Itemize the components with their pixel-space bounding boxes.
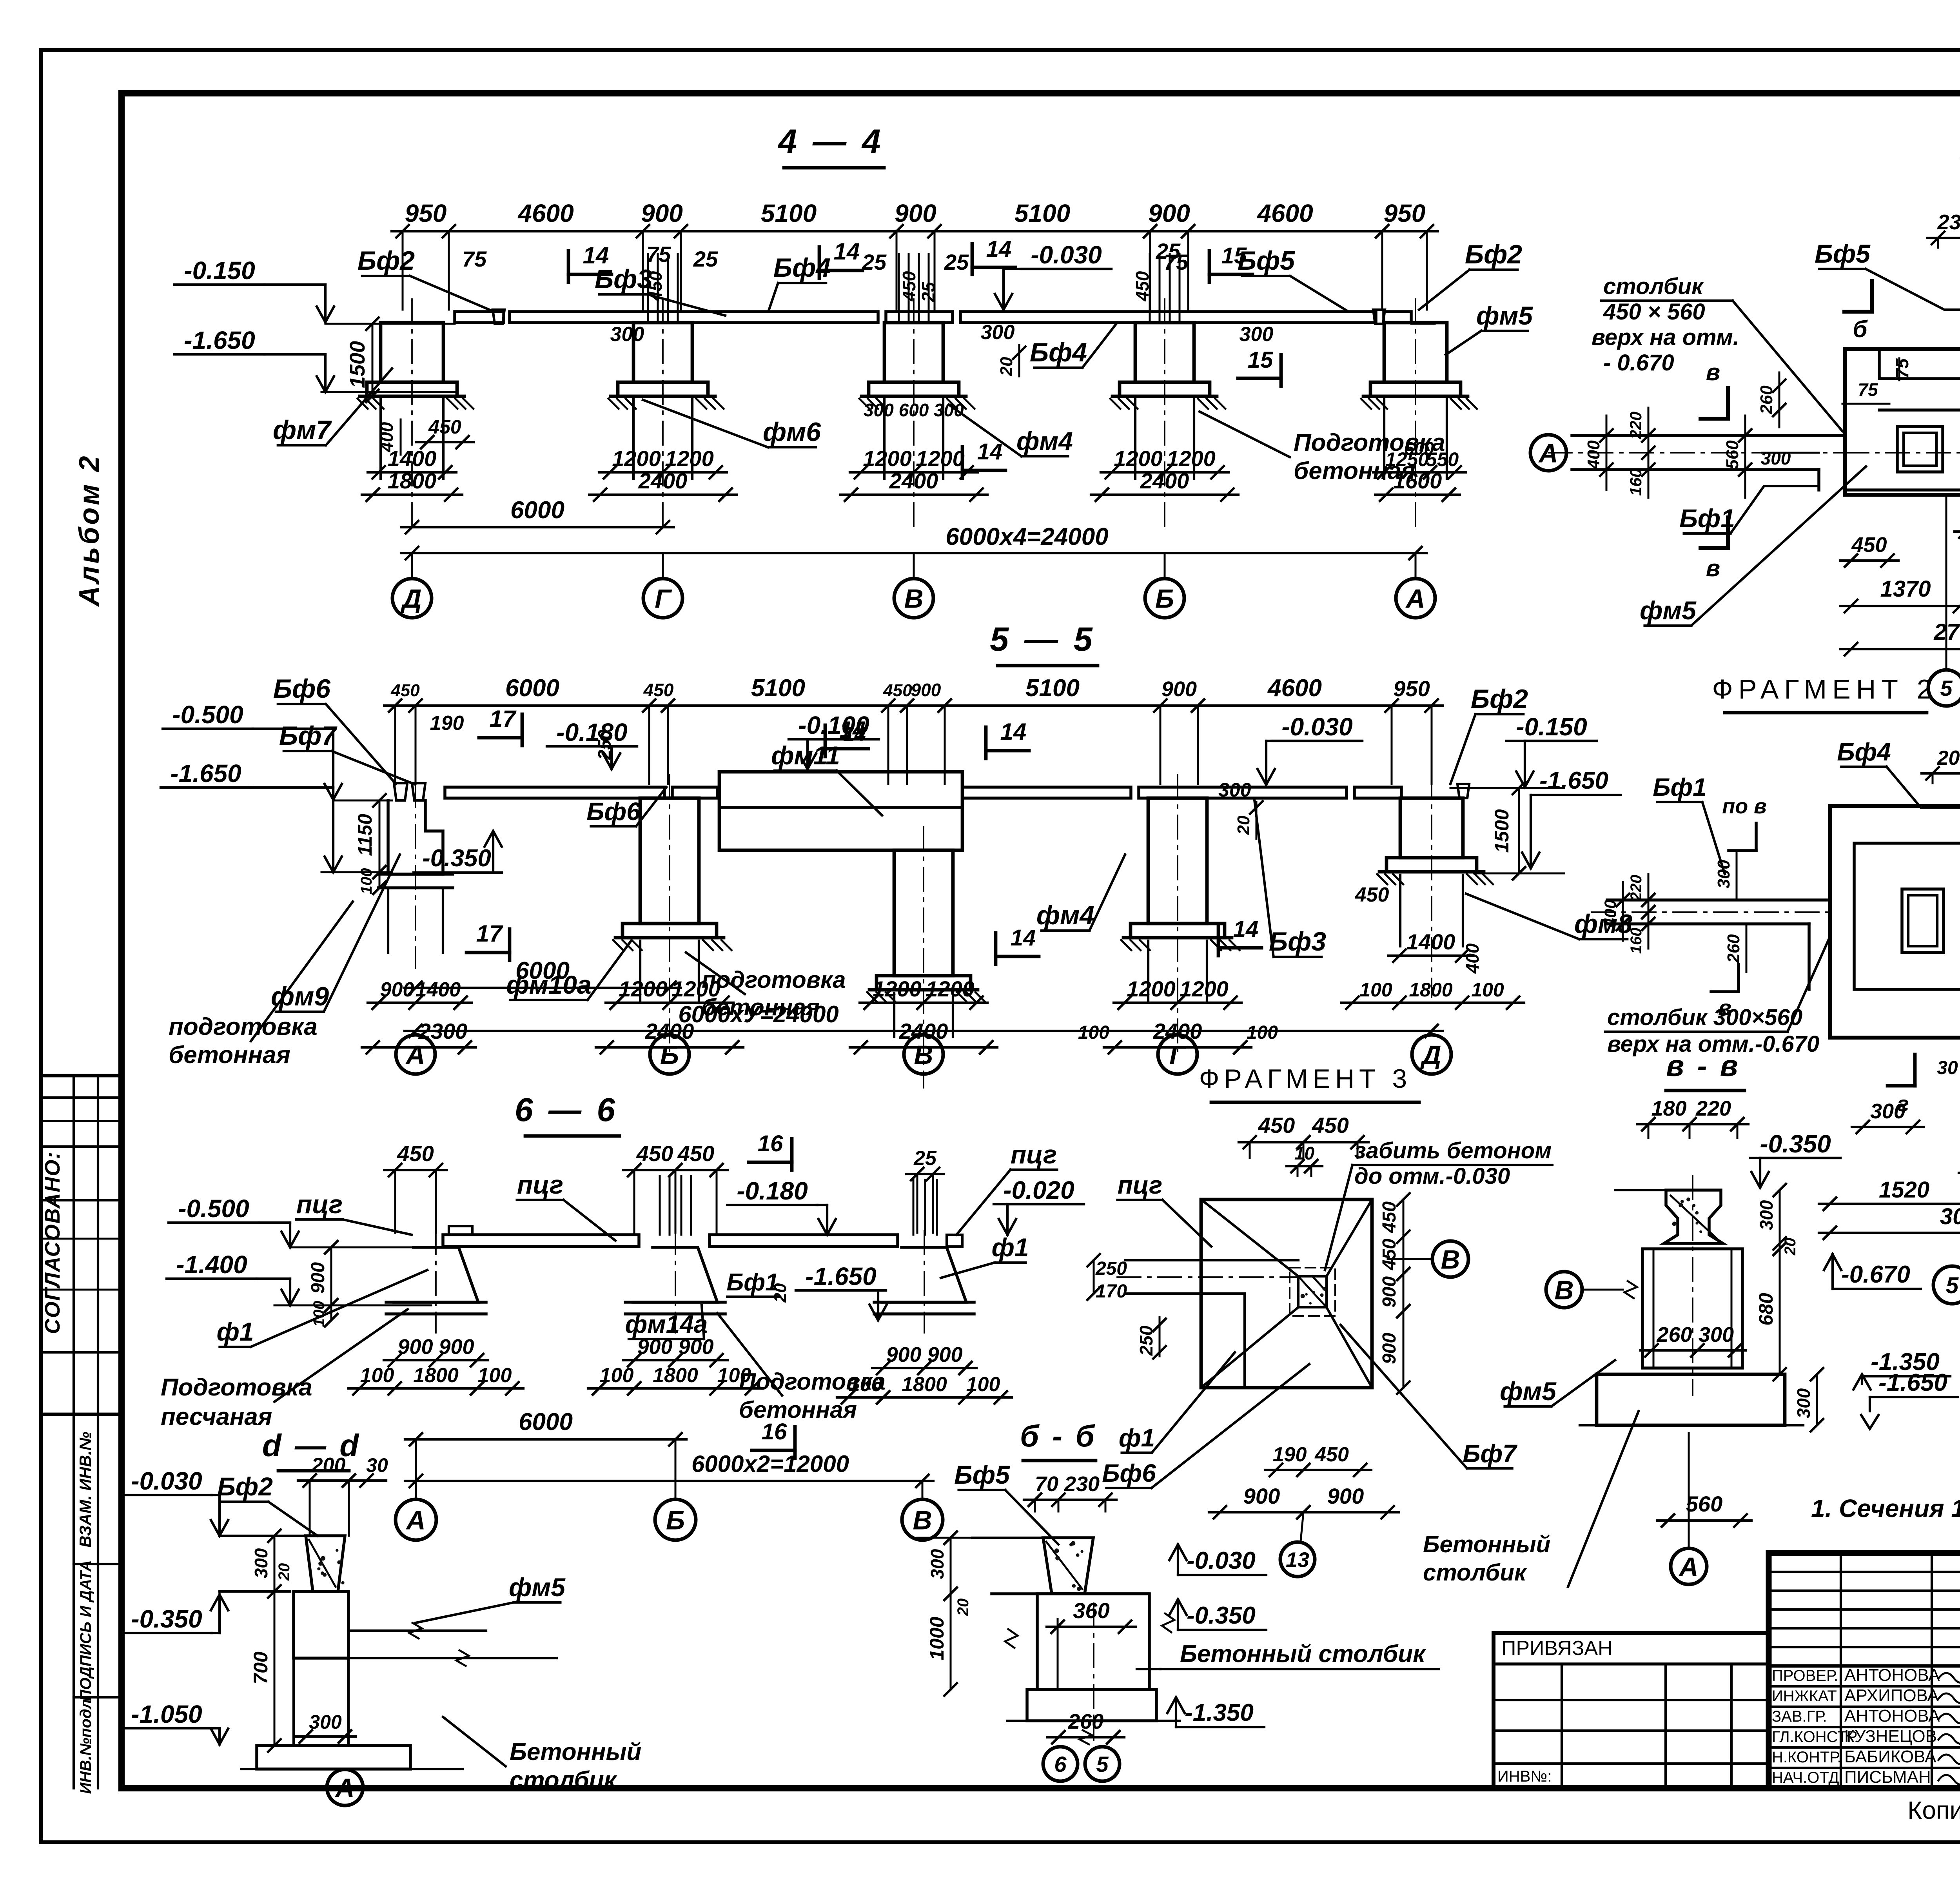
svg-text:Бф5: Бф5 (1238, 246, 1295, 276)
svg-text:-1.400: -1.400 (176, 1250, 247, 1279)
svg-text:260: 260 (1757, 385, 1776, 415)
fragment 2 section mark v lower (1737, 964, 1740, 992)
svg-text:-0.150: -0.150 (1516, 713, 1587, 741)
fragment 1 beam from left (1572, 434, 1845, 437)
svg-text:14: 14 (986, 236, 1012, 262)
section 5-5 column axis B (640, 798, 699, 924)
detail d-d dim 300 (295, 1735, 356, 1738)
svg-text:ВЗАМ. ИНВ.№: ВЗАМ. ИНВ.№ (76, 1432, 94, 1548)
fragment 3 dim 10 (1287, 1165, 1322, 1167)
svg-text:А: А (405, 1505, 425, 1535)
detail v-v axis circles 5 6 (1933, 1266, 1960, 1304)
fragment 2 dim 200 30 top (1922, 772, 1960, 775)
svg-text:100: 100 (1247, 1022, 1278, 1043)
svg-text:1800: 1800 (413, 1364, 459, 1387)
svg-text:100: 100 (1078, 1022, 1109, 1043)
svg-text:1200: 1200 (612, 446, 661, 471)
svg-text:А: А (1538, 438, 1558, 468)
svg-text:6: 6 (1054, 1752, 1067, 1776)
section 5-5 axis extension lines (415, 1031, 417, 1034)
svg-text:1200: 1200 (916, 446, 965, 471)
svg-text:1200: 1200 (1127, 976, 1176, 1001)
svg-text:4600: 4600 (1256, 199, 1313, 227)
svg-text:бетонная: бетонная (169, 1042, 290, 1069)
svg-text:75: 75 (1892, 358, 1912, 379)
svg-text:1400: 1400 (1406, 929, 1455, 954)
svg-text:300: 300 (1756, 1200, 1777, 1230)
svg-text:1200: 1200 (873, 976, 922, 1001)
svg-text:14: 14 (1011, 925, 1036, 951)
svg-text:фм5: фм5 (509, 1573, 566, 1602)
svg-text:450: 450 (397, 1141, 434, 1166)
svg-text:100: 100 (358, 868, 375, 895)
detail b-b dim 360 (1047, 1626, 1136, 1628)
svg-text:бетонная: бетонная (739, 1397, 857, 1423)
svg-text:Бф5: Бф5 (954, 1460, 1010, 1489)
fragment 1 dim 1370 1330 (1840, 605, 1960, 607)
label 14 mark bottom a (994, 933, 998, 964)
svg-text:-0.030: -0.030 (1031, 241, 1102, 269)
svg-text:Бф6: Бф6 (1102, 1459, 1156, 1487)
svg-text:Г: Г (1169, 1040, 1187, 1070)
svg-text:В: В (904, 584, 923, 613)
svg-text:100: 100 (1359, 979, 1392, 1001)
section 4-4 column axis V (884, 323, 943, 382)
svg-text:900: 900 (1243, 1484, 1280, 1508)
svg-text:400: 400 (1584, 440, 1603, 470)
svg-text:250: 250 (1136, 1325, 1156, 1356)
svg-text:-0.350: -0.350 (131, 1605, 202, 1633)
section 5-5 bottom chain 24000 (405, 1030, 1443, 1032)
svg-text:5: 5 (1096, 1752, 1109, 1776)
section 6-6 footing dims A (384, 1359, 488, 1361)
section 6-6 trapezoid footing B (633, 1247, 717, 1302)
svg-text:75: 75 (462, 247, 487, 271)
svg-text:Бф3: Бф3 (595, 264, 652, 294)
section 5-5 footing dims axis V (860, 1002, 987, 1004)
svg-text:А: А (1678, 1552, 1698, 1582)
svg-text:16: 16 (758, 1131, 783, 1156)
svg-text:5: 5 (1940, 676, 1953, 700)
section 6-6 view mark 16 top (790, 1139, 794, 1170)
svg-text:450 × 560: 450 × 560 (1603, 299, 1705, 325)
section 6-6 trapezoid footing V (882, 1247, 966, 1302)
svg-text:АНТОНОВА: АНТОНОВА (1844, 1666, 1940, 1685)
left attachment table privyazan (1494, 1631, 1769, 1635)
svg-text:-0.350: -0.350 (1760, 1130, 1831, 1158)
svg-text:450: 450 (677, 1141, 714, 1166)
svg-text:450: 450 (390, 681, 420, 700)
svg-text:25: 25 (944, 250, 969, 274)
svg-text:100: 100 (849, 1373, 883, 1396)
detail v-v dim 560 (1657, 1519, 1751, 1522)
svg-text:6000хУ=24000: 6000хУ=24000 (678, 1001, 838, 1027)
svg-text:-0.500: -0.500 (178, 1194, 249, 1223)
svg-text:1200: 1200 (1180, 976, 1229, 1001)
svg-text:верх на отм.: верх на отм. (1592, 325, 1739, 350)
detail b-b axis circles 6 5 (1043, 1747, 1078, 1781)
svg-text:900: 900 (678, 1335, 713, 1359)
svg-text:столбик: столбик (1423, 1559, 1527, 1586)
detail b-b dim 70 230 (1024, 1499, 1116, 1501)
svg-text:Бф6: Бф6 (586, 797, 641, 826)
fragment 1 dim 560 300 (1744, 416, 1746, 498)
detail v-v rotated dim 300 footing (1816, 1374, 1818, 1425)
detail v-v axis circle A (1671, 1548, 1707, 1584)
fragment 1 dim 230 70 (1927, 237, 1960, 239)
section 5-5 view mark 14 b (984, 727, 988, 758)
section 4-4 footing dims axis A (1373, 471, 1466, 474)
section 5-5 view mark 17 bottom (508, 929, 512, 960)
svg-text:300: 300 (927, 1549, 947, 1579)
svg-text:20: 20 (771, 1283, 790, 1303)
svg-text:180: 180 (1651, 1097, 1686, 1120)
svg-text:900: 900 (641, 199, 683, 227)
fragment 3 inner dashed square (1290, 1268, 1335, 1316)
section 5-5 top dimension chain (384, 704, 1443, 707)
svg-text:в: в (1706, 359, 1720, 385)
svg-text:5100: 5100 (751, 675, 805, 702)
svg-text:ИНВ.№подл.: ИНВ.№подл. (77, 1695, 94, 1794)
svg-text:пцг: пцг (1011, 1140, 1057, 1169)
section 6-6 top dim 450 450 B (623, 1169, 728, 1171)
svg-text:680: 680 (1755, 1293, 1777, 1326)
svg-text:900: 900 (380, 978, 414, 1001)
detail b-b footing (1027, 1689, 1156, 1721)
svg-text:900: 900 (895, 199, 936, 227)
svg-text:260: 260 (1068, 1710, 1103, 1733)
fragment 3 main square (1201, 1199, 1372, 1388)
svg-text:ф1: ф1 (991, 1233, 1029, 1262)
svg-text:200: 200 (1937, 747, 1960, 769)
section 5-5 column axis G (1148, 798, 1207, 924)
svg-text:Н.КОНТР.: Н.КОНТР. (1772, 1749, 1842, 1766)
fragment 1 dim 2700 (1840, 648, 1960, 650)
svg-text:-0.100: -0.100 (798, 711, 869, 739)
svg-text:300: 300 (1714, 860, 1733, 889)
section 5-5 footing dims axis B (606, 1002, 733, 1004)
section 4-4 footing dims axis G (599, 471, 727, 474)
svg-text:100: 100 (966, 1373, 1000, 1396)
detail d-d dim 200 30 (298, 1479, 386, 1482)
svg-text:Бетонный столбик: Бетонный столбик (1180, 1640, 1426, 1668)
svg-text:6000: 6000 (510, 497, 564, 524)
fragment 1 slab plan (1845, 349, 1960, 495)
svg-text:Бф7: Бф7 (1463, 1439, 1518, 1468)
svg-text:900: 900 (1148, 199, 1190, 227)
svg-text:фм14а: фм14а (625, 1310, 708, 1338)
svg-text:Копировал: Коршунова: Копировал: Коршунова (1907, 1796, 1960, 1824)
section 4-4 footing dims axis B (1101, 471, 1229, 474)
svg-text:Бф3: Бф3 (1269, 927, 1326, 956)
fragment 1 left dims (1606, 416, 1608, 490)
svg-text:- 0.670: - 0.670 (1603, 350, 1674, 376)
svg-text:160: 160 (1628, 928, 1645, 954)
label 14 fm4 mark (961, 447, 964, 478)
svg-text:ФРАГМЕНТ 2: ФРАГМЕНТ 2 (1712, 674, 1938, 704)
svg-text:Д: Д (1420, 1040, 1441, 1070)
svg-text:2400: 2400 (638, 468, 688, 493)
detail d-d axis circle A (327, 1769, 363, 1805)
section 4-4 column axis G (633, 323, 692, 382)
svg-text:400: 400 (1462, 943, 1483, 974)
svg-text:1800: 1800 (388, 468, 437, 493)
svg-text:1000: 1000 (926, 1617, 948, 1660)
svg-text:-1.650: -1.650 (170, 759, 241, 788)
label 14 mark bottom b (1217, 924, 1220, 956)
fragment 1 bottom dims 450 260 (1840, 559, 1898, 562)
fragment 2 inner square left (1902, 889, 1944, 953)
svg-text:НАЧ.ОТД: НАЧ.ОТД (1772, 1769, 1839, 1786)
svg-text:4600: 4600 (1267, 675, 1322, 702)
section 5-5 bottom chain 6000 (405, 987, 681, 989)
section 4-4 vertical dim 1500 (372, 324, 374, 396)
svg-text:560: 560 (1686, 1492, 1722, 1516)
detail d-d rotated dims (274, 1536, 276, 1746)
svg-text:-0.180: -0.180 (737, 1177, 808, 1205)
svg-text:1200: 1200 (926, 976, 975, 1001)
section 5-5 axis circles (396, 1035, 435, 1074)
svg-text:-0.030: -0.030 (131, 1467, 202, 1495)
svg-text:5 — 5: 5 — 5 (990, 621, 1095, 658)
svg-text:ф1: ф1 (216, 1317, 254, 1346)
svg-text:300: 300 (1870, 1100, 1906, 1123)
svg-text:30: 30 (1937, 1058, 1958, 1078)
svg-text:б - б: б - б (1020, 1419, 1097, 1453)
section 5-5 footing dims axis A (368, 1002, 472, 1004)
fragment 2 slab plan (1830, 806, 1960, 1038)
svg-text:360: 360 (1073, 1598, 1109, 1623)
fragment 3 axis circle V (1432, 1241, 1468, 1277)
svg-text:300: 300 (1218, 779, 1251, 801)
svg-text:фм7: фм7 (273, 415, 332, 445)
section 4-4 bottom chain 6000 (401, 526, 674, 528)
svg-text:Бф6: Бф6 (273, 674, 331, 704)
svg-text:Альбом 2: Альбом 2 (74, 454, 105, 607)
svg-text:-1.650: -1.650 (184, 326, 255, 354)
section 4-4 column dowels V (898, 254, 900, 323)
detail d-d pedestal (294, 1591, 348, 1658)
svg-text:А: А (405, 1040, 425, 1070)
svg-text:-0.350: -0.350 (1187, 1602, 1256, 1629)
svg-text:190: 190 (430, 712, 464, 735)
section 5-5 left wedges Bf6 Bf7 (394, 783, 407, 800)
sidebar lower boxes (73, 1414, 75, 1788)
svg-text:1200: 1200 (1114, 446, 1163, 471)
svg-text:230: 230 (1064, 1472, 1100, 1496)
svg-text:Бф2: Бф2 (1471, 684, 1528, 714)
svg-text:пцг: пцг (296, 1190, 343, 1219)
section 4-4 beam end wedge left (493, 310, 505, 324)
svg-text:950: 950 (1393, 676, 1430, 701)
svg-text:5100: 5100 (761, 199, 817, 227)
section 4-4 bottom chain 24000 (401, 552, 1426, 554)
svg-text:300: 300 (1761, 448, 1791, 468)
svg-text:20: 20 (955, 1599, 972, 1617)
title block signatures squiggles (1938, 1671, 1960, 1682)
detail b-b dim 260 (1047, 1736, 1124, 1738)
section 4-4 footing dims axis V (850, 471, 978, 474)
detail v-v shaped wedge (1664, 1190, 1723, 1243)
section 5-5 column axis D (1400, 798, 1463, 858)
svg-text:900: 900 (927, 1343, 962, 1366)
section 4-4 view mark 14 left (567, 251, 570, 282)
svg-text:подготовка: подготовка (169, 1013, 318, 1040)
svg-text:20: 20 (1782, 1238, 1799, 1256)
svg-text:25: 25 (693, 247, 718, 271)
svg-text:950: 950 (1384, 199, 1426, 227)
svg-text:ФРАГМЕНТ 3: ФРАГМЕНТ 3 (1199, 1064, 1412, 1094)
svg-text:30: 30 (366, 1454, 388, 1476)
svg-text:Г: Г (655, 584, 672, 613)
svg-text:2400: 2400 (1140, 468, 1189, 493)
detail v-v axis circle V (1546, 1272, 1582, 1308)
svg-text:450: 450 (636, 1141, 673, 1166)
svg-text:100: 100 (717, 1364, 751, 1387)
svg-text:-0.020: -0.020 (1003, 1176, 1074, 1204)
svg-text:СОГЛАСОВАНО:: СОГЛАСОВАНО: (41, 1151, 64, 1334)
svg-text:14: 14 (1233, 916, 1259, 942)
svg-text:1370: 1370 (1880, 576, 1931, 602)
svg-text:-0.350: -0.350 (422, 845, 491, 872)
svg-text:АРХИПОВА: АРХИПОВА (1844, 1686, 1939, 1705)
svg-text:100: 100 (1471, 979, 1504, 1001)
fragment 1 axis circle A left (1530, 435, 1566, 471)
svg-text:до отм.-0.030: до отм.-0.030 (1354, 1163, 1510, 1189)
svg-text:В: В (914, 1040, 933, 1070)
svg-text:1. Сечения 14-14 ... 17-17 см.: 1. Сечения 14-14 ... 17-17 см.лист 3. (1811, 1494, 1960, 1522)
fragment 1 inner wall lines (1845, 349, 1960, 490)
svg-text:ПРИВЯЗАН: ПРИВЯЗАН (1501, 1637, 1613, 1660)
svg-text:фм5: фм5 (1500, 1377, 1557, 1406)
svg-text:160: 160 (1626, 468, 1645, 496)
section 4-4 axis extension lines (411, 553, 413, 579)
svg-text:Бф2: Бф2 (1465, 240, 1522, 269)
fragment 1 inner square small (1897, 426, 1943, 472)
section 4-4 column axis B (1135, 323, 1194, 382)
svg-text:10: 10 (1294, 1143, 1315, 1163)
svg-text:190: 190 (1273, 1443, 1307, 1466)
svg-text:КУЗНЕЦОВ: КУЗНЕЦОВ (1844, 1727, 1937, 1746)
svg-text:фм9: фм9 (271, 982, 329, 1011)
detail b-b pedestal (992, 1592, 1149, 1595)
svg-text:300: 300 (1793, 1388, 1814, 1418)
fragment 1 axis dash through slab (1845, 452, 1960, 454)
fragment 2 dims 1520 1220 3000 (1819, 1203, 1960, 1205)
svg-text:900: 900 (439, 1335, 474, 1359)
section 4-4 top dimension chain (392, 230, 1438, 232)
fragment 3 circle 13 (1280, 1542, 1315, 1577)
svg-text:450: 450 (883, 681, 912, 700)
svg-text:5100: 5100 (1014, 199, 1070, 227)
svg-text:1520: 1520 (1879, 1177, 1929, 1203)
svg-text:17: 17 (476, 920, 503, 947)
svg-text:1150: 1150 (354, 814, 376, 856)
svg-text:6000: 6000 (519, 1408, 573, 1435)
section 4-4 column dowels G (647, 254, 649, 323)
svg-text:верх на отм.-0.670: верх на отм.-0.670 (1607, 1031, 1819, 1057)
svg-text:ПРОВЕР.: ПРОВЕР. (1772, 1667, 1838, 1684)
svg-text:фм5: фм5 (1476, 301, 1533, 330)
svg-text:фм5: фм5 (1640, 596, 1697, 625)
svg-text:фм11: фм11 (771, 741, 840, 770)
svg-text:-1.050: -1.050 (131, 1700, 202, 1728)
section 5-5 footing dims axis G (1114, 1002, 1241, 1004)
section 4-4 column axis D (381, 323, 443, 382)
svg-text:260: 260 (1724, 934, 1743, 964)
section 5-5 column axis V (894, 850, 953, 976)
svg-text:Б: Б (666, 1505, 685, 1535)
title block small rows grid (1769, 1571, 1960, 1573)
svg-text:Б: Б (660, 1040, 679, 1070)
fragment 1 section mark v lower (1726, 517, 1730, 548)
svg-text:-1.650: -1.650 (805, 1262, 876, 1290)
svg-text:-1.650: -1.650 (1878, 1369, 1947, 1396)
section 6-6 top dim 25 V (906, 1173, 944, 1175)
svg-text:25: 25 (862, 250, 887, 274)
svg-text:100: 100 (478, 1364, 512, 1387)
fragment 3 dims 900 900 (1209, 1511, 1399, 1513)
svg-text:100: 100 (600, 1364, 634, 1387)
svg-text:230: 230 (1937, 210, 1960, 234)
svg-text:2400: 2400 (889, 468, 938, 493)
svg-text:Бетонный: Бетонный (1423, 1531, 1550, 1557)
svg-text:Бф2: Бф2 (217, 1472, 273, 1501)
label 1500 right 5-5 (1518, 788, 1520, 873)
svg-text:Бф1: Бф1 (1653, 773, 1707, 801)
svg-text:700: 700 (250, 1651, 272, 1684)
section 6-6 footing dims V (872, 1367, 976, 1369)
svg-text:фм4: фм4 (1016, 426, 1073, 455)
section 4-4 axis circles (392, 579, 432, 618)
fragment 1 axis circles 5 6 (1928, 670, 1960, 706)
svg-text:450: 450 (428, 416, 461, 438)
svg-text:-0.030: -0.030 (1187, 1547, 1256, 1574)
fragment 2 beam from left (1607, 898, 1830, 902)
svg-text:300: 300 (309, 1711, 342, 1733)
section 6-6 axis circles (396, 1499, 436, 1540)
fragment 3 dim 250 rotated (1159, 1317, 1161, 1356)
section 6-6 view mark 16 bottom (793, 1427, 797, 1458)
svg-text:1400: 1400 (388, 446, 437, 471)
svg-text:1200: 1200 (863, 446, 912, 471)
detail v-v dim 260 300 (1641, 1349, 1746, 1352)
svg-text:Бф4: Бф4 (1837, 738, 1891, 766)
section 4-4 view mark 15 lower (1279, 355, 1283, 386)
svg-text:-1.650: -1.650 (1539, 767, 1608, 794)
svg-text:100: 100 (360, 1364, 394, 1387)
section 4-4 beam level thin lines (325, 323, 455, 325)
svg-text:-0.670: -0.670 (1841, 1261, 1910, 1288)
svg-text:Бф1: Бф1 (1679, 504, 1735, 533)
section 5-5 floor beams (445, 787, 664, 798)
svg-text:900: 900 (1379, 1333, 1400, 1364)
svg-text:17: 17 (490, 706, 517, 732)
svg-text:столбик 300×560: столбик 300×560 (1607, 1005, 1802, 1030)
svg-text:900: 900 (308, 1262, 328, 1294)
detail b-b rotated dims (950, 1538, 952, 1689)
svg-text:ф1: ф1 (1119, 1424, 1155, 1452)
svg-text:фм4: фм4 (1036, 900, 1094, 930)
section 6-6 trapezoid footing A (394, 1247, 478, 1302)
svg-text:Бф5: Бф5 (1815, 239, 1871, 268)
svg-text:-0.500: -0.500 (172, 700, 243, 729)
svg-text:столбик: столбик (1603, 274, 1704, 299)
svg-text:ИНЖКАТ: ИНЖКАТ (1772, 1688, 1837, 1705)
svg-text:6 — 6: 6 — 6 (515, 1091, 618, 1128)
svg-text:20: 20 (276, 1563, 293, 1581)
svg-text:ИНВ№:: ИНВ№: (1497, 1768, 1552, 1785)
